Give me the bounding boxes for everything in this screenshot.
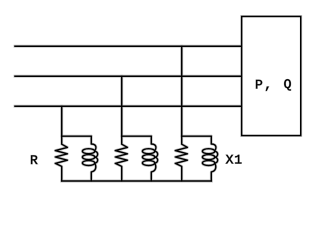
svg-text:,: , <box>264 77 272 92</box>
svg-text:P: P <box>255 77 263 92</box>
svg-text:X: X <box>226 153 234 168</box>
svg-text:Q: Q <box>284 77 292 92</box>
svg-text:1: 1 <box>234 153 242 168</box>
svg-text:R: R <box>30 153 38 168</box>
